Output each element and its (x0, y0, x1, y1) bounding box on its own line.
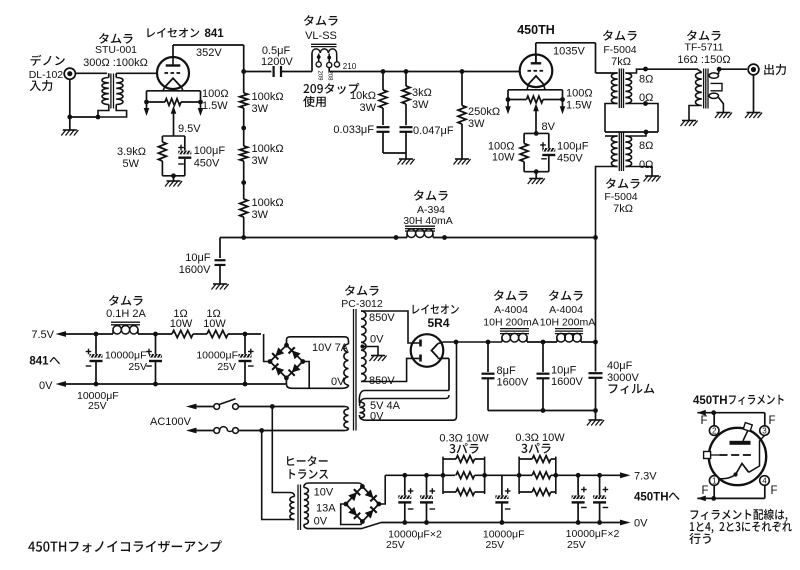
svg-text:450TH: 450TH (693, 395, 728, 407)
svg-text:850V: 850V (369, 375, 395, 387)
svg-text:1.5W: 1.5W (566, 100, 592, 112)
svg-text:25V: 25V (567, 539, 586, 551)
svg-text:PC-3012: PC-3012 (341, 298, 383, 310)
svg-text:1.5W: 1.5W (202, 100, 228, 112)
svg-text:10V 7A: 10V 7A (312, 342, 349, 354)
svg-text:10μF: 10μF (551, 365, 577, 377)
svg-text:25V: 25V (128, 361, 147, 373)
svg-text:0.3Ω 10W: 0.3Ω 10W (439, 433, 489, 445)
svg-text:25V: 25V (217, 361, 236, 373)
svg-text:40μF: 40μF (607, 360, 633, 372)
svg-text:25V: 25V (486, 539, 505, 551)
svg-text:209: 209 (316, 71, 322, 82)
svg-text:0.1H 2A: 0.1H 2A (106, 308, 146, 320)
svg-text:100kΩ: 100kΩ (252, 91, 284, 103)
svg-text:10H 200mA: 10H 200mA (483, 317, 538, 329)
svg-text:10000μF: 10000μF (105, 350, 147, 362)
svg-text:10H 200mA: 10H 200mA (540, 317, 595, 329)
svg-text:0.047μF: 0.047μF (413, 125, 454, 137)
svg-text:3: 3 (762, 427, 767, 436)
svg-text:1600V: 1600V (497, 377, 529, 389)
svg-text:5W: 5W (123, 158, 140, 170)
svg-text:AC100V: AC100V (150, 416, 192, 428)
svg-text:10kΩ: 10kΩ (350, 90, 376, 102)
svg-text:A-4004: A-4004 (549, 304, 583, 316)
svg-text:0V: 0V (370, 334, 384, 346)
svg-text:0V: 0V (39, 380, 53, 392)
svg-text:250kΩ: 250kΩ (468, 106, 500, 118)
svg-text:25V: 25V (88, 400, 107, 412)
svg-text:100μF: 100μF (557, 141, 589, 153)
svg-text:4: 4 (762, 476, 767, 485)
svg-text:1600V: 1600V (179, 264, 211, 276)
svg-text:300Ω :100kΩ: 300Ω :100kΩ (83, 57, 148, 69)
svg-text:850V: 850V (369, 312, 395, 324)
svg-text:100Ω: 100Ω (566, 88, 593, 100)
svg-text:STU-001: STU-001 (95, 44, 137, 56)
svg-text:841: 841 (29, 356, 49, 368)
svg-text:0.033μF: 0.033μF (333, 124, 374, 136)
svg-text:0V: 0V (634, 518, 648, 530)
svg-text:5R4: 5R4 (427, 316, 449, 330)
svg-text:3W: 3W (468, 118, 485, 130)
svg-text:10000μF: 10000μF (196, 350, 238, 362)
svg-text:3kΩ: 3kΩ (412, 87, 432, 99)
svg-text:1200V: 1200V (261, 56, 293, 68)
svg-text:DL-102: DL-102 (29, 69, 64, 81)
svg-text:13A: 13A (316, 503, 336, 515)
svg-text:25V: 25V (386, 539, 405, 551)
svg-text:450TH: 450TH (634, 491, 669, 503)
svg-text:F-5004: F-5004 (603, 44, 636, 56)
svg-text:F: F (701, 485, 708, 497)
svg-text:0Ω: 0Ω (639, 159, 653, 171)
svg-text:450V: 450V (194, 158, 220, 170)
svg-text:9.5V: 9.5V (178, 123, 201, 135)
svg-text:TF-5711: TF-5711 (685, 42, 724, 54)
svg-text:1600V: 1600V (551, 376, 583, 388)
svg-text:0.3Ω 10W: 0.3Ω 10W (515, 432, 565, 444)
svg-text:7kΩ: 7kΩ (613, 203, 633, 215)
svg-text:3W: 3W (252, 103, 269, 115)
svg-text:8V: 8V (542, 121, 556, 133)
svg-text:450V: 450V (557, 153, 583, 165)
svg-text:F: F (700, 415, 707, 427)
svg-text:1035V: 1035V (553, 45, 585, 57)
svg-text:100kΩ: 100kΩ (252, 197, 284, 209)
svg-text:100Ω: 100Ω (202, 88, 229, 100)
svg-text:VL-SS: VL-SS (305, 30, 337, 42)
svg-text:16Ω :150Ω: 16Ω :150Ω (677, 54, 730, 66)
svg-text:0V: 0V (314, 516, 328, 528)
svg-text:3W: 3W (252, 209, 269, 221)
svg-text:F: F (768, 415, 775, 427)
svg-text:F: F (770, 485, 777, 497)
svg-text:0Ω: 0Ω (639, 92, 653, 104)
svg-text:10V: 10V (314, 487, 334, 499)
svg-text:100μF: 100μF (194, 145, 226, 157)
svg-text:3.9kΩ: 3.9kΩ (117, 146, 146, 158)
svg-text:0V: 0V (370, 411, 384, 423)
svg-text:2: 2 (712, 427, 717, 436)
svg-text:3000V: 3000V (607, 372, 639, 384)
svg-text:100kΩ: 100kΩ (252, 143, 284, 155)
svg-text:3W: 3W (360, 102, 377, 114)
svg-text:7.5V: 7.5V (31, 329, 54, 341)
svg-text:8Ω: 8Ω (639, 140, 653, 152)
svg-text:30H 40mA: 30H 40mA (403, 215, 453, 227)
svg-text:3W: 3W (252, 155, 269, 167)
svg-text:10μF: 10μF (185, 252, 211, 264)
svg-text:A-4004: A-4004 (494, 304, 528, 316)
svg-text:352V: 352V (196, 47, 222, 59)
svg-text:10W: 10W (492, 152, 515, 164)
svg-text:3W: 3W (412, 99, 429, 111)
svg-text:450TH: 450TH (517, 23, 555, 37)
svg-text:208: 208 (327, 71, 333, 82)
svg-text:8μF: 8μF (497, 365, 516, 377)
svg-text:7kΩ: 7kΩ (611, 56, 631, 68)
svg-text:210: 210 (343, 62, 357, 71)
svg-text:841: 841 (205, 28, 225, 40)
svg-text:1: 1 (712, 476, 717, 485)
svg-text:10W: 10W (203, 318, 226, 330)
svg-text:7.3V: 7.3V (634, 471, 657, 483)
svg-text:0V: 0V (331, 376, 345, 388)
svg-text:F-5004: F-5004 (604, 191, 637, 203)
svg-text:8Ω: 8Ω (639, 74, 653, 86)
svg-text:10W: 10W (170, 318, 193, 330)
